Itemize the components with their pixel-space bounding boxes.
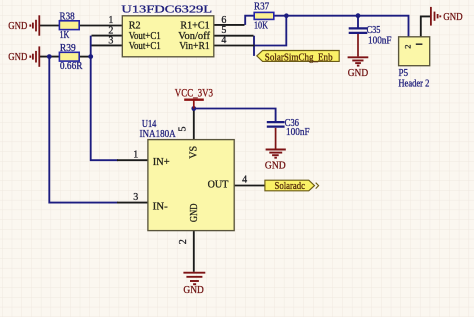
svg-text:10K: 10K: [254, 19, 268, 31]
wire drop pin5 to SolarSimChg_Enb flag: [253, 36, 255, 56]
svg-text:OUT: OUT: [208, 179, 229, 191]
junction R39 right / vertical: [88, 54, 93, 59]
ground earth below C36: [266, 128, 286, 158]
svg-text:4: 4: [242, 174, 247, 185]
IC U14 body: [148, 140, 234, 231]
svg-text:IN-: IN-: [153, 200, 168, 212]
net label Solaradc arrow chevron: [316, 183, 319, 189]
svg-text:GND: GND: [443, 11, 463, 23]
header P5 body: [399, 37, 430, 66]
svg-text:R37: R37: [254, 1, 270, 13]
svg-text:Vout+C1: Vout+C1: [129, 40, 161, 52]
wire R38 to U13 pin1: [78, 25, 122, 27]
wire rail from R37 right to header P5: [274, 16, 409, 37]
svg-text:Solaradc: Solaradc: [275, 180, 306, 192]
wire P5 pin1 to GND3: [421, 16, 430, 36]
svg-text:1K: 1K: [60, 29, 70, 41]
resistor R39 body: [59, 52, 79, 61]
capacitor C35 plates: [349, 28, 368, 33]
svg-text:2: 2: [178, 239, 189, 244]
net label SolarSimChg_Enb flag: [257, 51, 339, 62]
P5 pin number 1 (rotated): [416, 43, 423, 45]
wire U13 pin3 stub: [92, 44, 123, 46]
svg-text:U13FDC6329L: U13FDC6329L: [121, 3, 212, 15]
junction C35 tap on rail: [356, 13, 361, 18]
wire GND1 to R38: [40, 25, 60, 27]
svg-text:GND: GND: [265, 159, 286, 171]
ground earth below U14 pin2: [183, 273, 205, 285]
wire C35 drop from rail: [357, 16, 359, 28]
wire pin4 row to R37 vertical: [254, 16, 286, 46]
svg-text:Vin+R1: Vin+R1: [179, 40, 210, 52]
svg-text:100nF: 100nF: [286, 126, 310, 138]
wire U14 pin1 stub: [117, 159, 148, 161]
svg-text:VCC_3V3: VCC_3V3: [175, 88, 213, 100]
junction R37 right: [284, 13, 289, 18]
svg-text:100nF: 100nF: [368, 35, 392, 47]
ground earth below C35: [348, 34, 369, 66]
ground GND2 (left of R39): [30, 46, 39, 66]
ground GND1 (left of R38): [30, 15, 39, 35]
wire U14 pin5 VS stub: [193, 109, 195, 140]
wire U13 pin6 stub: [214, 24, 245, 26]
svg-text:GND: GND: [183, 284, 204, 296]
wire U14 pin3 stub: [117, 202, 148, 204]
svg-text:0.66R: 0.66R: [60, 60, 83, 72]
power VCC_3V3 bar: [184, 100, 204, 109]
junction VCC_3V3: [191, 106, 196, 111]
wire R39 right lead: [78, 56, 90, 58]
junction GND2/R39 tap: [47, 54, 52, 59]
wire net IN- : GND2/R39 junction down to U14 pin3: [49, 57, 118, 203]
wire jog U13 pin6 up to R37: [245, 16, 255, 25]
svg-text:R39: R39: [60, 42, 76, 54]
svg-text:3: 3: [108, 35, 113, 46]
svg-text:Header 2: Header 2: [398, 78, 429, 90]
svg-text:GND: GND: [188, 203, 200, 222]
svg-text:3: 3: [133, 192, 138, 203]
wire U13 pin2 stub: [92, 35, 123, 37]
svg-text:R38: R38: [60, 11, 75, 23]
svg-text:INA180A: INA180A: [140, 128, 176, 140]
resistor R37 body: [254, 12, 274, 19]
wire U13 pin5 stub: [214, 35, 254, 37]
wire GND2 to R39: [40, 56, 60, 58]
svg-text:SolarSimChg_Enb: SolarSimChg_Enb: [265, 51, 333, 63]
wire U14 OUT pin4 stub: [234, 185, 265, 187]
svg-text:GND: GND: [8, 20, 27, 32]
resistor R38 body: [59, 21, 79, 30]
ground GND3 (top right, header P5 pin1): [431, 7, 440, 26]
svg-text:GND: GND: [8, 51, 27, 63]
capacitor C36 plates: [267, 122, 285, 127]
wire U14 pin2 GND stub: [193, 231, 195, 272]
svg-text:VS: VS: [187, 146, 199, 159]
svg-text:2: 2: [403, 45, 413, 49]
svg-text:IN+: IN+: [153, 156, 170, 168]
wire U13 pin4 stub: [214, 45, 255, 47]
svg-text:4: 4: [221, 35, 226, 46]
net label Solaradc flag: [265, 180, 315, 191]
wire VCC junction to C36: [194, 109, 276, 122]
wire net IN+ : U13 pin2 down to U14 pin1: [91, 36, 118, 161]
svg-text:5: 5: [178, 127, 189, 132]
svg-text:GND: GND: [348, 67, 368, 79]
svg-text:1: 1: [133, 150, 138, 161]
IC U13 body: [122, 16, 214, 57]
